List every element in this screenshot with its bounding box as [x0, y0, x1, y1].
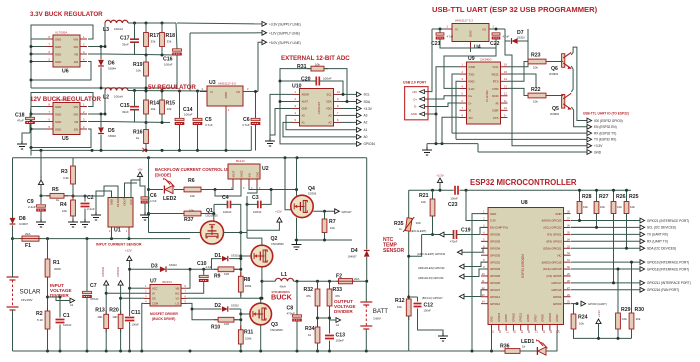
- wire left rail 12V block: [30, 107, 32, 156]
- svg-text:R12: R12: [395, 298, 405, 304]
- wire U6 pin6: [31, 53, 46, 55]
- wire Q6 collector to IO0: [571, 47, 587, 120]
- svg-text:10k: 10k: [630, 205, 635, 209]
- wire 3.3V block bottom rail: [31, 87, 177, 89]
- svg-text:LO: LO: [176, 302, 179, 306]
- wire U1 filter: [104, 186, 118, 198]
- svg-text:C4: C4: [222, 195, 229, 201]
- wire switch node link: [241, 297, 262, 299]
- power arrow node3: [38, 175, 43, 185]
- svg-text:GND: GND: [594, 150, 602, 154]
- svg-text:CH340G: CH340G: [480, 58, 492, 62]
- port RX (UART TX): [640, 239, 668, 244]
- svg-text:100nF: 100nF: [132, 323, 140, 327]
- junction: [295, 188, 298, 191]
- svg-text:GND: GND: [469, 65, 475, 69]
- wire DTR to R22: [508, 88, 529, 95]
- svg-text:R15: R15: [166, 101, 176, 107]
- junction: [100, 87, 103, 90]
- wire U4 VI: [432, 28, 445, 30]
- junction: [128, 268, 131, 271]
- wire U7 sd to gpio32 line: [121, 297, 144, 299]
- junction: [147, 156, 150, 159]
- svg-text:C19: C19: [461, 228, 471, 234]
- svg-text:RI: RI: [496, 101, 499, 105]
- junction: [30, 45, 33, 48]
- svg-text:RX (UART TX): RX (UART TX): [647, 240, 668, 244]
- wire SDA arrow: [341, 101, 357, 103]
- svg-text:3.3k: 3.3k: [63, 176, 69, 180]
- svg-text:4.7uF: 4.7uF: [205, 123, 213, 127]
- resistor R32: [304, 285, 320, 310]
- svg-text:RXD: RXD: [469, 80, 475, 84]
- resistor R37: [180, 209, 205, 216]
- wire R20 bottom: [120, 329, 122, 352]
- wire U9 3.3V: [444, 48, 496, 88]
- svg-text:GPIO232: GPIO232: [117, 266, 120, 277]
- power +12V backflow: [277, 218, 282, 223]
- port A1: [336, 318, 341, 323]
- wire gpio18 port: [571, 268, 640, 270]
- svg-text:TX (UART RX): TX (UART RX): [647, 233, 668, 237]
- svg-text:10k: 10k: [421, 200, 426, 204]
- wire C4 right down: [231, 204, 241, 232]
- wire C5 bottom: [197, 125, 199, 151]
- resistor R5: [46, 187, 68, 202]
- resistor R33: [327, 285, 342, 310]
- capacitor C6 input: [141, 197, 149, 203]
- junction: [145, 54, 148, 57]
- svg-text:BATT: BATT: [373, 308, 389, 315]
- junction: [59, 350, 62, 353]
- junction: [40, 149, 43, 152]
- wire U6 pin5: [31, 61, 46, 63]
- wire usb gnd link: [427, 143, 478, 145]
- svg-text:D8: D8: [19, 216, 26, 222]
- wire C2 bottom: [84, 209, 86, 220]
- diode D4: [364, 250, 370, 256]
- wire C3 left lead: [247, 203, 258, 205]
- wire R28 top: [579, 190, 581, 201]
- resistor R2: [36, 307, 50, 333]
- junction: [595, 189, 598, 192]
- wire R232: [508, 74, 537, 88]
- svg-text:3.3V BUCK REGULATOR: 3.3V BUCK REGULATOR: [30, 11, 103, 18]
- svg-text:R37: R37: [184, 217, 194, 223]
- svg-text:GPIO233: GPIO233: [102, 266, 105, 277]
- wire U9 GND down: [436, 67, 460, 114]
- wire Q2 gate vertical: [240, 233, 242, 277]
- svg-text:(SCL) GPIO22: (SCL) GPIO22: [543, 226, 562, 230]
- junction: [284, 156, 287, 159]
- wire R16 top: [145, 123, 147, 130]
- junction: [612, 189, 615, 192]
- wire GND arrow: [478, 151, 587, 153]
- wire usb +5V riser: [428, 29, 432, 92]
- junction: [119, 350, 122, 353]
- junction: [11, 237, 14, 240]
- svg-text:USB-TTL UART (ESP 32 USB PROGR: USB-TTL UART (ESP 32 USB PROGRAMMER): [432, 5, 598, 14]
- junction: [296, 280, 299, 283]
- resistor R27: [594, 194, 609, 218]
- svg-text:10k: 10k: [579, 322, 584, 326]
- svg-text:SW: SW: [73, 45, 78, 49]
- wire trunk gnd stem: [426, 144, 428, 147]
- svg-text:5.1K: 5.1K: [37, 318, 43, 322]
- svg-text:LED1: LED1: [521, 339, 534, 345]
- junction: [212, 212, 215, 215]
- diode D3: [160, 266, 166, 272]
- wire C12 top: [417, 297, 419, 302]
- svg-text:D4: D4: [351, 248, 358, 254]
- wire ADDR to gnd: [270, 94, 293, 138]
- junction: [100, 113, 103, 116]
- wire C6 bottom: [255, 125, 257, 151]
- wire R28 bottom to pin37: [571, 214, 580, 221]
- wire R19 bottom: [145, 76, 147, 88]
- wire D4 to batt rail: [366, 257, 368, 281]
- wire A0 pin to A1 arrow: [286, 115, 357, 129]
- svg-text:GPIO34: GPIO34: [490, 246, 501, 250]
- wire buck out rail: [294, 280, 367, 282]
- wire R32 top: [317, 281, 319, 289]
- svg-text:L3: L3: [103, 27, 109, 33]
- wire D7 cathode: [518, 29, 528, 41]
- ground C2: [80, 219, 90, 227]
- zener diode D6: [98, 60, 104, 66]
- port GPIO0 UART: [581, 301, 607, 306]
- junction: [439, 28, 442, 31]
- svg-text:+5V: +5V: [412, 90, 417, 94]
- U8 pin details: [481, 211, 571, 333]
- port GPIO18 (INTERFACE PORT): [640, 267, 689, 272]
- ADC U10 ADS1115: [300, 89, 334, 127]
- svg-text:100nF: 100nF: [424, 309, 432, 313]
- svg-text:R24: R24: [578, 315, 588, 321]
- svg-text:R21: R21: [419, 193, 429, 199]
- resistor R8: [238, 272, 251, 296]
- usb port connector: [405, 87, 428, 120]
- wire L2 out 12V rail: [128, 90, 207, 93]
- svg-text:GPIO16: GPIO16: [551, 288, 562, 292]
- junction: [270, 188, 273, 191]
- wire U1 ip+: [111, 233, 113, 239]
- svg-text:SDA: SDA: [326, 100, 332, 104]
- svg-text:VB: VB: [176, 286, 180, 290]
- svg-text:U2: U2: [262, 166, 269, 172]
- port +3.3V: [587, 143, 603, 148]
- svg-text:USB 2.0 PORT: USB 2.0 PORT: [403, 80, 427, 84]
- junction: [407, 255, 410, 258]
- port BCCU GPIO27: [422, 294, 464, 300]
- junction: [342, 93, 345, 96]
- wire FB: [88, 53, 105, 55]
- svg-text:GPIO8: GPIO8: [542, 314, 545, 322]
- junction: [328, 317, 331, 320]
- svg-text:R7: R7: [329, 219, 336, 225]
- usb port pins: [411, 90, 428, 117]
- junction: [100, 45, 103, 48]
- svg-text:GPIO27: GPIO27: [490, 288, 501, 292]
- svg-text:U3: U3: [209, 80, 216, 86]
- junction: [323, 210, 326, 213]
- svg-text:GPIO11: GPIO11: [520, 313, 523, 322]
- svg-text:R27: R27: [599, 194, 609, 200]
- junction: [323, 239, 326, 242]
- wire Q4 gate from trunk: [285, 158, 291, 210]
- mosfet Q3: [250, 303, 272, 325]
- wire U9 XO down: [442, 117, 460, 143]
- wire gpio16 port: [571, 289, 640, 291]
- junction: [84, 195, 87, 198]
- wire R1 bottom: [47, 277, 49, 311]
- svg-text:GND: GND: [490, 212, 496, 216]
- svg-text:R36: R36: [500, 344, 510, 350]
- U1 pin details: [109, 192, 133, 234]
- svg-text:EN: EN: [74, 60, 78, 64]
- svg-text:VI: VI: [455, 28, 458, 32]
- svg-text:NC: NC: [557, 253, 561, 257]
- wire C7 top: [86, 239, 88, 292]
- port GPIO34 ADC: [357, 142, 376, 147]
- svg-text:A2: A2: [364, 121, 368, 125]
- wire U6 VIN loop: [31, 25, 93, 39]
- wire R17 top: [145, 23, 147, 33]
- svg-text:GPIO0: GPIO0: [553, 302, 562, 306]
- svg-text:VS: VS: [176, 297, 180, 301]
- ground trunk: [422, 147, 432, 155]
- wire A2 tap: [48, 297, 71, 301]
- wire D1 cathode: [229, 258, 241, 260]
- svg-text:GPIO15: GPIO15: [549, 312, 552, 322]
- svg-text:+12V: +12V: [275, 210, 282, 214]
- svg-text:A1: A1: [336, 323, 340, 327]
- svg-text:CTS: CTS: [493, 116, 499, 120]
- junction: [40, 194, 43, 197]
- svg-text:5V REGULATOR: 5V REGULATOR: [148, 84, 196, 91]
- wire U9 TXD down: [456, 81, 460, 139]
- led LED1: [536, 339, 547, 355]
- port IR2104-EN GPIO32: [418, 264, 464, 270]
- svg-text:U5: U5: [62, 136, 69, 142]
- wire left edge down: [12, 158, 14, 218]
- wire C8 top: [296, 281, 298, 315]
- port IO0 (ESP32 GPIO0): [587, 118, 623, 123]
- svg-text:C6: C6: [150, 193, 157, 199]
- junction: [133, 89, 136, 92]
- svg-text:R20: R20: [109, 308, 119, 314]
- port GND: [587, 150, 602, 155]
- wire c1 link: [48, 296, 61, 298]
- junction: [110, 237, 113, 240]
- svg-text:SDA: SDA: [364, 100, 371, 104]
- wire +3.3V arrow: [505, 29, 587, 146]
- wire R15 top: [161, 91, 163, 101]
- svg-text:2.2uF: 2.2uF: [87, 207, 95, 211]
- junction: [100, 149, 103, 152]
- wire 3v3 rail left: [409, 189, 454, 191]
- wire R34 bottom: [317, 343, 319, 351]
- wire C6b top: [140, 180, 145, 197]
- wire R14 bottom: [145, 114, 147, 123]
- wire R1 top: [47, 239, 49, 259]
- wire R23 to Q6 base: [546, 61, 563, 63]
- svg-text:R26: R26: [616, 194, 626, 200]
- junction: [435, 142, 438, 145]
- svg-text:R32: R32: [304, 287, 314, 293]
- svg-text:D3: D3: [151, 264, 158, 270]
- junction: [431, 189, 434, 192]
- wire LED1 to pin24: [547, 331, 557, 352]
- svg-text:USB-TTL UART IO (TO ESP32): USB-TTL UART IO (TO ESP32): [583, 112, 629, 116]
- svg-text:Q6: Q6: [551, 66, 558, 72]
- wire D1 anode link: [212, 259, 222, 270]
- svg-text:GPIO6: GPIO6: [527, 314, 530, 322]
- svg-text:ADS1115: ADS1115: [317, 101, 321, 114]
- port +12V supply line: [262, 30, 300, 35]
- svg-text:3.3V: 3.3V: [490, 219, 496, 223]
- wire Q3 source down: [260, 325, 262, 351]
- wire C18 to gnd: [22, 133, 30, 141]
- resistor R6: [180, 178, 205, 198]
- mosfet Q4: [291, 195, 313, 217]
- wire C18 bottom: [29, 124, 31, 133]
- wire EN arrow to C19: [444, 234, 454, 236]
- svg-text:HO: HO: [175, 292, 179, 296]
- junction: [196, 149, 199, 152]
- svg-text:4.7uF: 4.7uF: [503, 35, 510, 39]
- junction: [597, 337, 600, 340]
- wire C4 left lead: [214, 203, 228, 205]
- junction: [128, 350, 131, 353]
- wire D2 cathode: [229, 308, 241, 310]
- svg-text:100nF: 100nF: [336, 339, 345, 343]
- wire scl port: [571, 226, 640, 228]
- wire 3v3 rail right: [460, 189, 632, 191]
- U10 pin names: [295, 90, 341, 124]
- microcontroller U8 ESP32: [488, 208, 564, 325]
- junction: [495, 28, 498, 31]
- wire T1 to C6: [250, 126, 252, 150]
- U9 pin details: [460, 63, 508, 120]
- resistor R20: [109, 308, 123, 333]
- svg-text:U9: U9: [468, 56, 475, 62]
- svg-text:DCD: DCD: [492, 94, 498, 98]
- mosfet Q1: [201, 221, 224, 244]
- wire R30 top: [631, 262, 633, 313]
- svg-text:A3: A3: [364, 114, 368, 118]
- svg-text:GND: GND: [55, 60, 61, 64]
- wire SW to L3: [88, 23, 105, 47]
- wire C11b bottom: [129, 322, 131, 351]
- svg-text:R22: R22: [531, 87, 541, 93]
- resistor R22: [524, 87, 550, 104]
- svg-text:IR2104: IR2104: [162, 280, 172, 284]
- usb uart U9 CH340G: [467, 62, 501, 124]
- svg-text:D-: D-: [469, 101, 472, 105]
- svg-text:CSD19505: CSD19505: [205, 214, 218, 218]
- junction: [161, 22, 164, 25]
- wire C7 bottom: [86, 298, 88, 351]
- capacitor C4: [222, 195, 232, 214]
- wire U1 vcc: [131, 177, 140, 198]
- port +3.3V supply line: [262, 22, 301, 27]
- wire R25 top: [626, 190, 628, 201]
- capacitor C17: [120, 36, 139, 47]
- svg-text:A0: A0: [364, 135, 368, 139]
- svg-text:EN (CHIP PU): EN (CHIP PU): [490, 226, 508, 230]
- wire U7 com down: [142, 303, 144, 351]
- svg-text:SS54#: SS54#: [108, 134, 116, 138]
- wire R26 top: [613, 190, 615, 201]
- svg-text:GND: GND: [224, 92, 228, 98]
- resistor R4: [60, 196, 75, 220]
- wire R31 right to SDA: [324, 69, 347, 102]
- svg-text:3.3V: 3.3V: [469, 87, 475, 91]
- wire R33 top: [329, 281, 331, 289]
- svg-text:ESP32 MICROCONTROLLER: ESP32 MICROCONTROLLER: [470, 178, 577, 187]
- junction: [296, 350, 299, 353]
- svg-text:R25: R25: [629, 194, 639, 200]
- wire Q4 source down: [296, 218, 298, 240]
- svg-text:TX (ESP32 RX): TX (ESP32 RX): [594, 138, 616, 142]
- capacitor C7: [83, 283, 99, 301]
- wire C2 top: [84, 196, 86, 202]
- svg-text:GPIO4: GPIO4: [553, 295, 562, 299]
- wire R20 top: [120, 285, 122, 315]
- wire R27 top: [596, 190, 598, 201]
- wire C3 right up: [261, 190, 271, 205]
- resistor R23: [524, 53, 550, 70]
- wire U5 pin6: [31, 121, 46, 123]
- svg-text:GND: GND: [55, 52, 61, 56]
- junction: [365, 280, 368, 283]
- wire R14 top: [145, 91, 147, 101]
- power +3.3V esp: [436, 174, 444, 183]
- svg-text:GND: GND: [55, 127, 61, 131]
- junction: [59, 296, 62, 299]
- port IR2104-IN GPIO33: [418, 274, 464, 280]
- svg-text:4.7uF: 4.7uF: [150, 199, 157, 203]
- nc cross: [143, 148, 147, 152]
- svg-text:(RX) GPIO3: (RX) GPIO3: [546, 240, 562, 244]
- wire C6 top: [255, 92, 257, 119]
- svg-text:C15: C15: [120, 103, 130, 109]
- svg-text:AMS1117-5.0: AMS1117-5.0: [218, 82, 236, 86]
- svg-text:40uH: 40uH: [280, 285, 286, 289]
- diode D7: [511, 38, 517, 44]
- junction: [104, 113, 107, 116]
- svg-text:GPIO35: GPIO35: [490, 253, 501, 257]
- svg-text:D5: D5: [108, 128, 115, 134]
- wire +5V supply: [258, 42, 262, 91]
- diode D1: [222, 256, 228, 261]
- svg-text:SS310: SS310: [231, 254, 239, 258]
- port A1 ADC: [357, 127, 368, 132]
- junction: [91, 149, 94, 152]
- svg-text:100nF: 100nF: [63, 323, 72, 327]
- wire U5 pin5: [31, 128, 46, 130]
- capacitor C8 buck: [287, 306, 302, 322]
- svg-text:R30: R30: [635, 307, 645, 313]
- wire rx port: [571, 240, 640, 242]
- capacitor C12: [414, 304, 422, 307]
- junction: [104, 45, 107, 48]
- wire R17 bottom: [145, 47, 147, 56]
- wire to F1: [13, 238, 23, 240]
- svg-text:4.7uF: 4.7uF: [242, 123, 250, 127]
- resistor R15: [160, 96, 176, 118]
